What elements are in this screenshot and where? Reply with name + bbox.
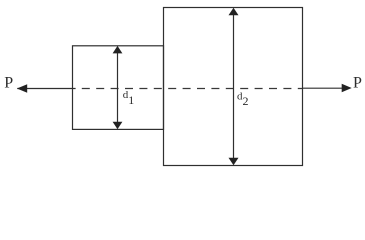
svg-text:P: P xyxy=(4,74,13,91)
d1 dimension arrow line xyxy=(117,48,119,128)
svg-text:P: P xyxy=(353,74,362,91)
left force arrow line xyxy=(17,88,75,90)
right force arrow line xyxy=(302,87,345,89)
right force arrowhead xyxy=(342,84,352,93)
large bar section (diameter d2) xyxy=(164,8,303,166)
d2 dimension arrow line xyxy=(233,10,235,164)
small bar section (diameter d1) xyxy=(73,46,164,130)
dashed centerline xyxy=(82,88,302,90)
d2 arrowhead up xyxy=(229,8,239,16)
d1 arrowhead up xyxy=(113,46,123,54)
d2 arrowhead down xyxy=(229,158,239,166)
left force arrowhead xyxy=(17,84,27,93)
d1 arrowhead down xyxy=(113,122,123,130)
